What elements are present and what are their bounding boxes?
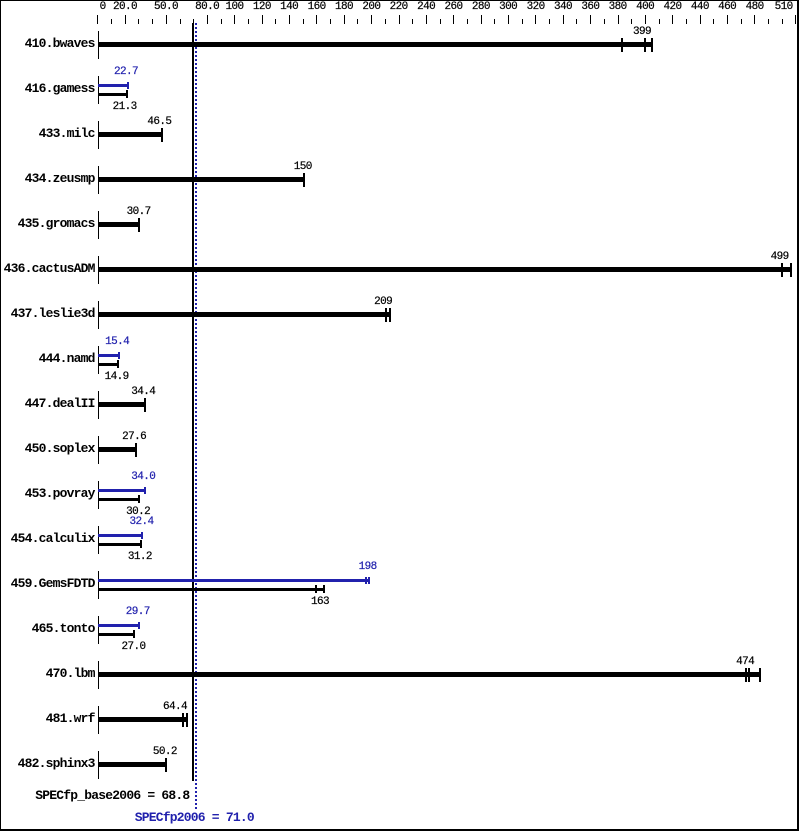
row 465.tonto xyxy=(1,622,95,635)
bar 447.dealII value 34.4 xyxy=(98,402,146,407)
base bar 453.povray value 30.2 xyxy=(98,498,140,501)
SPECfp2006 label xyxy=(135,811,254,824)
right border thickening xyxy=(797,1,798,830)
bar 470.lbm value 474 xyxy=(98,672,761,677)
bar 433.milc value 46.5 xyxy=(98,132,163,137)
row 437.leslie3d xyxy=(1,307,95,320)
axis labels xyxy=(100,2,106,13)
peak bar 453.povray value 34.0 xyxy=(98,489,146,492)
row 450.soplex xyxy=(1,442,95,455)
bar 482.sphinx3 value 50.2 xyxy=(98,762,167,767)
peak bar 444.namd value 15.4 xyxy=(98,354,120,357)
base bar 416.gamess value 21.3 xyxy=(98,93,128,96)
row 436.cactusADM xyxy=(1,262,95,275)
row 470.lbm xyxy=(1,667,95,680)
bar 410.bwaves value 399 xyxy=(98,42,653,47)
bar 434.zeusmp value 150 xyxy=(98,177,305,182)
base bar 454.calculix value 31.2 xyxy=(98,543,142,546)
peak bar 454.calculix value 32.4 xyxy=(98,534,143,537)
axis minor ticks xyxy=(111,19,112,24)
row 416.gamess xyxy=(1,82,95,95)
row 434.zeusmp xyxy=(1,172,95,185)
row 433.milc xyxy=(1,127,95,140)
bar 450.soplex value 27.6 xyxy=(98,447,137,452)
row 454.calculix xyxy=(1,532,95,545)
SPECfp_base2006 reference line (68.8) xyxy=(192,23,194,781)
base bar 444.namd value 14.9 xyxy=(98,363,119,366)
row 482.sphinx3 xyxy=(1,757,95,770)
SPECfp2006 dotted reference line (71.0) xyxy=(195,23,197,809)
peak bar 459.GemsFDTD value 198 xyxy=(98,579,370,582)
bar 436.cactusADM value 499 xyxy=(98,267,792,272)
row 459.GemsFDTD xyxy=(1,577,95,590)
row 481.wrf xyxy=(1,712,95,725)
row 447.dealII xyxy=(1,397,95,410)
row 435.gromacs xyxy=(1,217,95,230)
bottom border thickening xyxy=(1,829,798,831)
base bar 465.tonto value 27.0 xyxy=(98,633,135,636)
peak bar 416.gamess value 22.7 xyxy=(98,84,129,87)
bar 481.wrf value 64.4 xyxy=(98,717,188,722)
SPECfp_base2006 label xyxy=(35,789,189,802)
bar 437.leslie3d value 209 xyxy=(98,312,391,317)
row 444.namd xyxy=(1,352,95,365)
base bar 459.GemsFDTD value 163 xyxy=(98,588,325,591)
peak bar 465.tonto value 29.7 xyxy=(98,624,140,627)
row 410.bwaves xyxy=(1,37,95,50)
axis major ticks xyxy=(97,15,98,24)
row 453.povray xyxy=(1,487,95,500)
bar 435.gromacs value 30.7 xyxy=(98,222,140,227)
